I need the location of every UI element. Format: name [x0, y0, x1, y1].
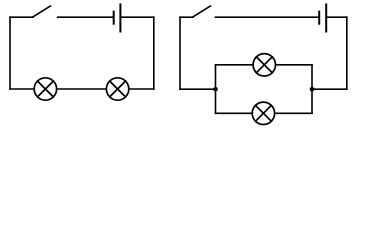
- battery B1 short plate (negative): [113, 11, 115, 25]
- wire node B to right-circuit right vertical: [312, 88, 347, 90]
- battery B2 long plate (positive): [325, 3, 327, 32]
- lamp L1: [34, 78, 56, 100]
- wire parallel-branch right vertical: [311, 65, 313, 114]
- wire parallel-branch top: [216, 64, 313, 66]
- battery B2 short plate (negative): [318, 11, 320, 25]
- wire battery to top-right corner: [120, 16, 153, 18]
- wire switch to battery: [58, 16, 114, 18]
- lamp L3: [253, 54, 275, 76]
- lamp L2: [106, 78, 128, 100]
- switch S1 open blade: [33, 6, 51, 17]
- wire right-circuit left horizontal to node A: [180, 88, 216, 90]
- wire left-circuit right vertical: [153, 17, 155, 89]
- wire right-circuit top-left to switch: [180, 16, 193, 18]
- wire left-circuit bottom: [10, 88, 154, 90]
- wire parallel-branch bottom: [216, 112, 313, 114]
- wire switch to battery: [216, 16, 320, 18]
- wire left-circuit left vertical: [9, 17, 11, 89]
- wire right-circuit right vertical: [346, 17, 348, 89]
- wire battery to top-right corner: [326, 16, 347, 18]
- node A junction dot: [213, 87, 218, 92]
- wire left-circuit top-left to switch: [10, 16, 33, 18]
- node B junction dot: [310, 87, 315, 92]
- switch S2 open blade: [193, 6, 211, 17]
- lamp L4: [252, 102, 274, 124]
- wire parallel-branch left vertical: [215, 65, 217, 114]
- wire right-circuit left vertical: [179, 17, 181, 89]
- battery B1 long plate (positive): [119, 3, 121, 32]
